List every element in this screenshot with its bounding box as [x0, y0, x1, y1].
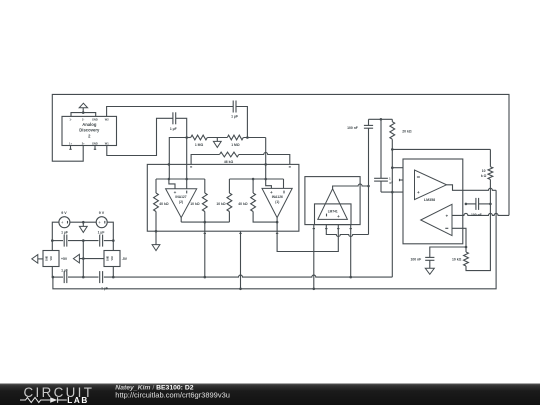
- svg-text:40 kΩ: 40 kΩ: [159, 202, 169, 206]
- svg-text:10 kΩ: 10 kΩ: [216, 202, 226, 206]
- svg-text:LM358: LM358: [424, 198, 435, 202]
- svg-text:1 MΩ: 1 MΩ: [231, 143, 240, 147]
- svg-text:+: +: [337, 214, 340, 219]
- svg-text:+: +: [445, 214, 448, 219]
- svg-text:k Ω: k Ω: [481, 174, 487, 178]
- svg-text:1+: 1+: [69, 142, 72, 146]
- svg-text:2-: 2-: [82, 118, 84, 122]
- svg-text:1 µF: 1 µF: [61, 231, 68, 235]
- svg-text:1 µF: 1 µF: [98, 231, 105, 235]
- svg-text:9 V: 9 V: [61, 211, 67, 215]
- svg-text:1 µF: 1 µF: [231, 114, 238, 118]
- svg-text:20 kΩ: 20 kΩ: [402, 129, 412, 133]
- svg-text:µF: µF: [390, 181, 394, 185]
- svg-text:46 kΩ: 46 kΩ: [224, 160, 234, 164]
- svg-text:GND: GND: [46, 256, 49, 262]
- svg-text:VIN: VIN: [111, 256, 114, 260]
- svg-text:INA127: INA127: [175, 195, 186, 199]
- svg-text:10: 10: [482, 169, 486, 173]
- svg-text:10 kΩ: 10 kΩ: [452, 257, 462, 261]
- svg-text:+: +: [98, 220, 101, 225]
- svg-text:(1): (1): [275, 200, 279, 204]
- svg-text:1-: 1-: [69, 118, 71, 122]
- svg-text:Analog: Analog: [82, 122, 97, 127]
- svg-text:1 µF: 1 µF: [101, 287, 108, 291]
- svg-text:LAB: LAB: [67, 396, 89, 405]
- svg-text:+: +: [61, 220, 64, 225]
- svg-text:1 MΩ: 1 MΩ: [195, 143, 204, 147]
- svg-text:GND: GND: [92, 118, 98, 122]
- svg-text:9 V: 9 V: [99, 211, 105, 215]
- svg-text:LM741: LM741: [328, 209, 338, 213]
- svg-text:INA126: INA126: [272, 195, 283, 199]
- svg-text:100 nF: 100 nF: [411, 257, 422, 261]
- svg-text:VIN: VIN: [50, 256, 53, 260]
- svg-text:W2: W2: [105, 118, 109, 122]
- svg-text:(2): (2): [179, 200, 183, 204]
- svg-text:W1: W1: [105, 142, 109, 146]
- svg-text:1 µF: 1 µF: [170, 127, 177, 131]
- svg-text:1 µF: 1 µF: [61, 268, 68, 272]
- svg-text:+5V: +5V: [61, 257, 68, 261]
- svg-text:10 kΩ: 10 kΩ: [190, 202, 200, 206]
- svg-text:+: +: [270, 190, 273, 195]
- svg-text:+: +: [174, 190, 177, 195]
- svg-text:Discovery: Discovery: [79, 128, 100, 133]
- svg-text:100 nF: 100 nF: [347, 126, 358, 130]
- svg-text:-5V: -5V: [122, 257, 128, 261]
- svg-text:+: +: [417, 190, 420, 195]
- svg-text:40 kΩ: 40 kΩ: [238, 202, 248, 206]
- svg-text:GND: GND: [92, 142, 98, 146]
- svg-text:2+: 2+: [82, 142, 85, 146]
- svg-text:GND: GND: [107, 256, 110, 262]
- svg-text:100 nF: 100 nF: [471, 213, 482, 217]
- svg-text:http://circuitlab.com/crt6gr38: http://circuitlab.com/crt6gr3899v3u: [115, 390, 230, 399]
